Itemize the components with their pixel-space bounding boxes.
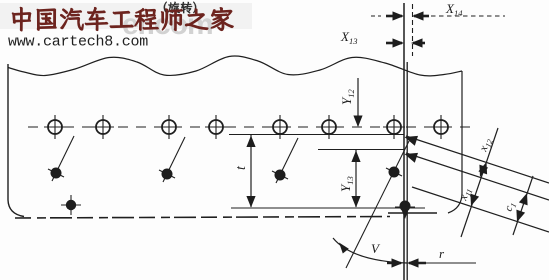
rotation arc [333, 238, 407, 263]
svg-text:V: V [371, 241, 381, 256]
dim r [387, 258, 476, 267]
hole circle 1 [44, 115, 66, 139]
dim X13 arrows [386, 38, 425, 47]
construction line lower [231, 207, 425, 209]
hole row centerline [28, 126, 471, 128]
perpendicular dim line 2 [513, 176, 533, 235]
rotated-axis leader 2 [163, 137, 185, 182]
construction line mid [318, 149, 404, 151]
rotated-axis leader 1 [52, 136, 74, 181]
hole circle 5 [269, 115, 291, 139]
hole circle 2 [92, 115, 114, 139]
dim Y13 [351, 150, 360, 208]
punched dot 1 [48, 168, 64, 179]
svg-text:r: r [439, 246, 445, 261]
watermark Chinese text [12, 7, 233, 31]
rotated strip axis line [346, 141, 409, 268]
hole circle 6 [318, 115, 340, 139]
punched dot bottom-left [61, 195, 81, 215]
punched dot 4 [386, 167, 402, 178]
slant line 2 [405, 153, 549, 200]
panel bottom edge (rough dashed) [15, 217, 390, 219]
dashed offset line [412, 4, 414, 56]
hole circle 8 [430, 115, 452, 139]
second vertical line [406, 62, 408, 280]
punched dot 3 [272, 170, 288, 181]
watermark shadow band [0, 3, 252, 29]
punched dot 2 [159, 169, 175, 180]
panel right edge [448, 71, 462, 213]
caption (rotate) [164, 2, 196, 14]
svg-text:X14: X14 [445, 1, 463, 18]
slant line 3 [412, 187, 549, 232]
panel left edge [8, 64, 24, 217]
slant line 1 [405, 136, 549, 183]
svg-text:Y12: Y12 [339, 89, 356, 105]
main vertical reference line [403, 3, 405, 280]
dim Y12 line [353, 78, 362, 127]
svg-text:x12: x12 [477, 137, 495, 155]
dim X14 arrows [371, 11, 505, 20]
hole circle 4 [205, 115, 227, 139]
svg-text:Y13: Y13 [338, 176, 355, 192]
svg-text:c1: c1 [503, 200, 519, 213]
hole circle 3 [158, 115, 180, 139]
svg-text:X13: X13 [340, 29, 357, 46]
panel top wavy break line [8, 56, 462, 76]
rotated-axis leader 3 [276, 138, 298, 183]
svg-text:t: t [234, 165, 249, 170]
hole circle 7 [383, 115, 405, 139]
punched dot on centerline bottom [395, 201, 415, 220]
perpendicular dim line 1 [461, 128, 498, 237]
construction line upper [229, 134, 404, 136]
dim t [246, 135, 255, 208]
svg-text:www.cartech8.com: www.cartech8.com [8, 34, 148, 51]
